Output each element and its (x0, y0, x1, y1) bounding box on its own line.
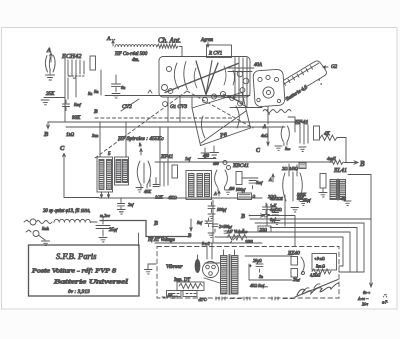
speaker frame (348, 175, 371, 220)
svg-text:Hf AT Voltage: Hf AT Voltage (147, 238, 176, 243)
svg-text:25μf: 25μf (293, 277, 301, 282)
wire y198 (99, 197, 262, 199)
fuse circle + ground (26, 230, 50, 246)
wire crossing into supply (339, 271, 364, 273)
svg-text:5mf: 5mf (74, 102, 81, 107)
svg-text:B: B (187, 234, 192, 239)
node B arrow (HT out) (344, 160, 365, 168)
ground (IF tube cathode) (136, 188, 143, 193)
battery terminal note (357, 290, 371, 307)
nested wire 3 (270, 228, 357, 273)
svg-text:+3·nΩ: +3·nΩ (314, 256, 325, 261)
svg-text:EBC41: EBC41 (232, 162, 249, 169)
wire below socket (230, 108, 291, 113)
capacitor 8n + ground (112, 75, 126, 98)
rectifier EZ40 plates (291, 257, 305, 278)
capacitor 5mf left cluster (197, 218, 212, 227)
dashed dial cord diagonal left (95, 91, 187, 158)
svg-text:5n: 5n (88, 91, 92, 96)
svg-text:3n: 3n (259, 274, 263, 279)
tube EBC41 electrodes (215, 170, 228, 191)
svg-text:A: A (46, 48, 51, 54)
label G1 CV3 (163, 102, 188, 110)
svg-text:500pf: 500pf (217, 207, 227, 212)
svg-text:45Ω 5mf…: 45Ω 5mf… (250, 283, 268, 288)
tube EL41 electrodes (283, 164, 303, 201)
svg-text:Agran: Agran (200, 38, 214, 43)
ground EL41 cathode (291, 208, 299, 213)
node A (antenna input) (46, 48, 53, 62)
svg-text:B: B (359, 160, 365, 168)
svg-text:4m.: 4m. (132, 58, 139, 63)
nested wire 5 (215, 237, 343, 266)
svg-text:2ΩΩ: 2ΩΩ (268, 194, 276, 199)
svg-text:1ΩK: 1ΩK (155, 195, 163, 200)
box corner near socket (288, 117, 295, 132)
bus wire y127 (66, 126, 285, 128)
gang circles bottom-left (162, 85, 173, 94)
capacitor Tr/5mf (63, 100, 82, 111)
bus wire y95 (105, 95, 250, 97)
wire coil to dial box (180, 47, 183, 57)
wire stub x101 (100, 70, 102, 95)
resistor 1nK cluster (270, 195, 307, 226)
nested wire 2 (255, 223, 364, 272)
resistor EL41 grid (319, 174, 327, 198)
wires dial box to bus (168, 97, 192, 122)
svg-text:S.F.B. Paris: S.F.B. Paris (56, 251, 97, 261)
resistor 2ohm box (258, 226, 271, 232)
svg-text:4KΩ: 4KΩ (168, 195, 177, 200)
ground link between boxes (145, 264, 157, 274)
socket feed wires (228, 58, 254, 72)
svg-text:ôv : 3,913: ôv : 3,913 (68, 289, 90, 295)
dial pointer line (165, 64, 238, 93)
main bus wire y122 (48, 121, 308, 123)
power transformer T3 (221, 250, 239, 295)
svg-text:R CV1: R CV1 (208, 52, 222, 57)
svg-text:25μΩ: 25μΩ (253, 258, 262, 263)
svg-text:A: A (213, 191, 217, 196)
ground EBC (225, 187, 235, 194)
svg-text:25K: 25K (46, 92, 55, 97)
svg-text:3nn: 3nn (92, 133, 98, 138)
bundle diagonals to P8 pins (214, 94, 247, 107)
svg-text:EZ40: EZ40 (287, 250, 300, 257)
nested wire 4 (240, 232, 350, 271)
svg-text:400: 400 (229, 187, 235, 191)
node A2 (aerial arrow top) (106, 36, 115, 46)
wire above supply box (155, 242, 262, 244)
svg-text:5·n·2: 5·n·2 (202, 242, 210, 246)
node A (EBC heater) (213, 191, 220, 196)
choke winding squiggle (157, 44, 178, 48)
svg-text:2nf: 2nf (128, 202, 134, 207)
wires electrodes up (160, 127, 168, 162)
dial extra scribbles (194, 66, 234, 88)
B+ nested wire 1 (outer) (370, 219, 373, 287)
svg-text:a·7·: a·7· (382, 300, 388, 305)
node C with arrow (60, 145, 66, 160)
svg-text:500K: 500K (297, 192, 306, 197)
svg-text:1nf: 1nf (185, 156, 191, 161)
corner jotting (382, 294, 388, 305)
ground P8 (203, 146, 219, 158)
winding note handwriting (43, 209, 110, 219)
resistor EF41 screen (314, 126, 320, 140)
svg-text:A…: A… (106, 36, 115, 42)
svg-text:G1 CV3: G1 CV3 (170, 104, 187, 110)
capacitor 25uf (96, 218, 118, 242)
heater curves (281, 126, 289, 146)
HT wire thick (100, 221, 190, 237)
svg-text:HF Spirales : 455Kc: HF Spirales : 455Kc (117, 135, 164, 142)
wire C down (64, 160, 99, 198)
label CV2 with slash (121, 99, 139, 111)
svg-text:5n: 5n (94, 89, 99, 94)
resistor 45R block (299, 163, 306, 169)
svg-text:P8: P8 (219, 132, 227, 139)
EF41 heater electrodes (299, 125, 308, 152)
vibrator tube V1 (203, 262, 219, 278)
converter coil box P8 (192, 93, 251, 146)
variable capacitor arcs (174, 62, 187, 90)
choke coil L2 (24, 219, 97, 231)
svg-text:45K: 45K (144, 189, 151, 194)
svg-text:A·cc −: A·cc − (357, 296, 369, 301)
output transformer (330, 179, 351, 206)
svg-text:8μf: 8μf (270, 217, 276, 222)
contact boxes (167, 291, 198, 298)
node B (HT feed) (240, 204, 295, 246)
wire 4K to B rail (339, 138, 346, 163)
signal wire y162 (155, 161, 332, 163)
svg-text:EF41: EF41 (294, 119, 308, 126)
svg-text:4Ω: 4Ω (341, 196, 346, 201)
bottom edge tick marks (162, 296, 294, 301)
svg-text:G2: G2 (331, 65, 338, 70)
resistor (screen EF41) (172, 165, 178, 178)
node h arrow (139, 142, 142, 155)
ground above T2 (201, 148, 209, 158)
svg-text:A: A (268, 177, 272, 182)
capacitor 4uf cluster (263, 203, 282, 222)
svg-text:5mf: 5mf (256, 180, 263, 185)
tube socket plate (253, 69, 285, 107)
svg-text:4nΩ: 4nΩ (261, 133, 268, 138)
svg-text:C: C (60, 145, 65, 152)
svg-text:40A: 40A (254, 63, 263, 68)
battery lower dots (266, 80, 321, 114)
wire vibrator to transformer (204, 263, 220, 283)
svg-text:B: B (153, 221, 158, 227)
svg-text:5mh: 5mh (42, 226, 49, 231)
resistor 4K (320, 132, 339, 141)
svg-text:500pf: 500pf (236, 187, 246, 192)
svg-text:4μf/2Ω: 4μf/2Ω (270, 207, 282, 212)
label G2 arrow (323, 65, 338, 70)
node A heater arrow (261, 125, 269, 146)
handwriting HF coil note (114, 52, 148, 63)
label M tick (148, 90, 152, 93)
SFB title box (29, 245, 140, 296)
svg-text:·AT·C·: ·AT·C· (198, 298, 207, 302)
wire stub x138 (138, 233, 140, 246)
wire vibrator up (207, 243, 212, 259)
resistor (screen) (90, 56, 96, 70)
power supply dashed box (157, 247, 339, 299)
svg-text:5nc: 5nc (285, 146, 291, 151)
svg-text:B: B (240, 214, 245, 220)
svg-text:Batterie Universel: Batterie Universel (54, 279, 128, 286)
tube EF41 (IF amp) electrodes (137, 161, 151, 189)
electrolytic blob (195, 255, 200, 273)
vibrator transformer box (177, 282, 204, 291)
node B mid label (88, 91, 98, 115)
IF transformer T1 secondary (115, 157, 129, 185)
tube ECH42 electrodes (68, 60, 84, 78)
Agran label + arrow (200, 38, 214, 47)
svg-text:24·v: 24·v (362, 303, 368, 307)
svg-text:B: B (93, 109, 98, 115)
trimmer CV1 box (207, 45, 232, 58)
socket pin circles (257, 75, 281, 102)
svg-text:Vibreur: Vibreur (166, 264, 183, 270)
gang pin circles right (237, 71, 249, 92)
resistor 1M box (238, 193, 256, 200)
gang circle G (166, 66, 171, 71)
pencil stroke extra (206, 61, 212, 95)
svg-text:1kΩ: 1kΩ (66, 132, 75, 138)
wire (cathode down) (64, 58, 66, 122)
svg-text:HF Co-réal 500: HF Co-réal 500 (114, 52, 148, 57)
output filter box (312, 254, 337, 271)
resistor squiggle bottom (312, 269, 331, 274)
heater wire y158 (198, 158, 216, 160)
IF transformer T2 can (186, 171, 212, 200)
resistor plate EBC41 (236, 172, 242, 185)
svg-text:400: 400 (213, 162, 219, 166)
socket center electrode (263, 87, 274, 98)
svg-text:Poste Voiture - réf: PVP 8: Poste Voiture - réf: PVP 8 (31, 268, 117, 275)
svg-text:B: B (43, 131, 49, 138)
wire + ground 25K (41, 98, 65, 105)
svg-text:2Ω 3/5Ω: 2Ω 3/5Ω (282, 166, 299, 171)
svg-text:8n: 8n (121, 85, 125, 90)
svg-text:6v·+: 6v·+ (363, 290, 371, 295)
tube cathode stubs (68, 78, 76, 99)
svg-text:2ΩΩ: 2ΩΩ (260, 228, 268, 232)
capacitor 500pf + ground (208, 202, 227, 219)
dashed dial cord diagonal right (187, 91, 253, 128)
antenna trimmer arcs (45, 56, 55, 75)
battery cell ticks (270, 66, 313, 94)
capacitor 2nf + ground (118, 199, 135, 215)
battery B1 outline (269, 61, 327, 103)
node B arrow (supply feed) (187, 219, 192, 239)
antenna choke coil (115, 45, 157, 47)
wire plate right (242, 177, 258, 179)
T1 arrows (100, 192, 109, 198)
caps 2x500pf cluster (207, 221, 233, 237)
capacitor cathode (150, 178, 159, 187)
svg-text:ECH42: ECH42 (61, 53, 82, 60)
svg-text:EF41: EF41 (160, 153, 173, 160)
wire bundle verticals (235, 58, 247, 108)
P8 pin circles (202, 91, 242, 106)
svg-text:93K: 93K (72, 116, 81, 121)
capacitor 25uf supply (249, 258, 263, 272)
wire x213 heater drop (212, 200, 214, 243)
svg-text:Ch. Ant.: Ch. Ant. (158, 37, 181, 45)
dial / tuning gang box (159, 57, 250, 98)
signature flourish (295, 280, 339, 298)
ground heater (275, 146, 291, 151)
ground (antenna) (46, 75, 55, 80)
wire loop supply (245, 256, 292, 280)
svg-text:2×500pf: 2×500pf (219, 225, 233, 229)
IF transformer T1 can (97, 157, 113, 192)
wire socket to heater (267, 107, 269, 125)
node A arrow EL41 (268, 174, 274, 182)
G circles (213, 161, 231, 170)
capacitor 5mf (249, 180, 263, 189)
svg-text:·¯·: ·¯· (383, 294, 387, 299)
node B (left) with arrow (43, 122, 50, 138)
svg-text:45μf: 45μf (303, 198, 311, 203)
wire y219 from EL stage (250, 218, 371, 220)
svg-text:5nn Ω: 5nn Ω (316, 265, 325, 269)
pointer V strokes (196, 61, 218, 95)
grid electrodes second tube (160, 162, 168, 186)
potentiometer AF volume (226, 229, 253, 244)
svg-text:EL41: EL41 (333, 167, 347, 174)
resistor 4nnF squiggle (327, 156, 343, 164)
wires bus to IF can 1 (100, 122, 126, 157)
dashed AVC line (95, 117, 233, 119)
